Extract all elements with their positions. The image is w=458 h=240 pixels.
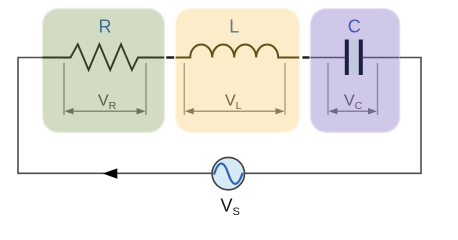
V_C measurement ticks [328,63,378,115]
inductor highlight box (orange) [176,9,300,133]
capacitor highlight box (purple) [310,9,399,133]
V_C arrow [329,108,378,114]
wire: outer loop (left, bottom, right) [18,58,421,174]
AC source sine wave [214,164,242,184]
inductor L [176,44,300,57]
current direction arrow on bottom wire [103,168,118,178]
V_L measurement ticks [184,63,285,115]
svg-text:L: L [229,17,239,37]
V_R measurement ticks [64,63,146,115]
capacitor C right plate [359,40,363,76]
wire dash between L and C [302,56,309,58]
resistor highlight box (green) [43,9,165,133]
capacitor C dielectric gap [349,40,359,76]
wire dash between R and L [166,56,174,58]
svg-text:R: R [99,17,112,37]
AC source VS circle [212,157,244,189]
svg-text:C: C [348,17,361,37]
resistor R [43,44,165,70]
V_R arrow [65,108,146,114]
capacitor C left plate [345,40,349,76]
V_L arrow [185,108,285,114]
capacitor C leads [310,57,399,59]
